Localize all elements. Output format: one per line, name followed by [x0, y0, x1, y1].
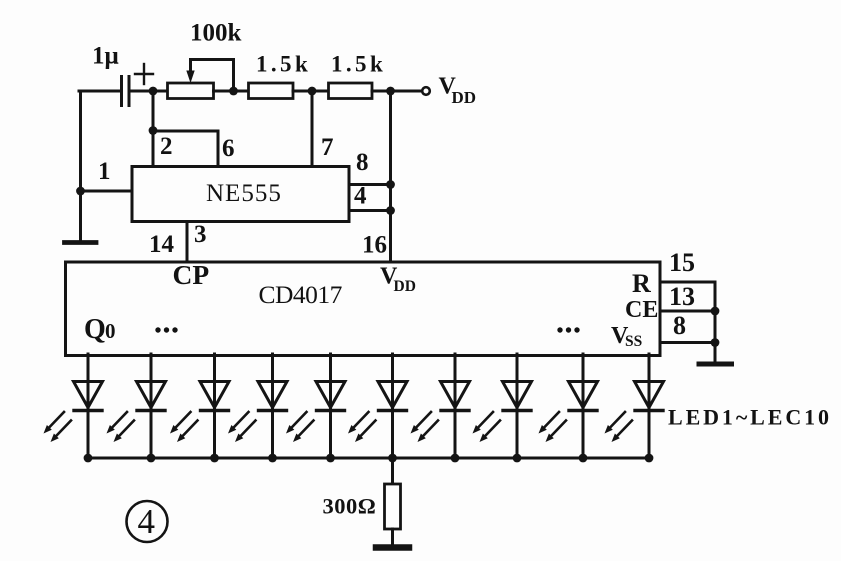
wire: R1 to R2: [293, 90, 329, 93]
LED9: [539, 354, 598, 462]
wire: NE555 pin 4 link: [349, 209, 391, 212]
wire: NE555 pin 3 to CD4017 CP: [186, 222, 189, 263]
wire: R3 to ground: [391, 529, 394, 545]
svg-text:13: 13: [669, 282, 695, 311]
wire: CE pin 13 link: [660, 310, 715, 313]
svg-text:8: 8: [356, 149, 369, 176]
label: VDD terminal: [439, 74, 477, 108]
LED5: [286, 354, 345, 462]
LED4: [228, 354, 287, 462]
figure number circle 4: [127, 501, 168, 542]
ground: left ground bar: [65, 240, 97, 245]
node: junction pin2/pin6: [149, 126, 158, 135]
svg-text:1.5k: 1.5k: [256, 52, 311, 77]
resistor R1 1.5k body: [249, 83, 294, 99]
ellipsis left: [155, 327, 177, 332]
terminal: VDD open circle: [422, 87, 430, 95]
wire: NE555 pin 6 link: [153, 131, 218, 166]
LED3: [170, 354, 229, 462]
svg-text:0: 0: [105, 319, 116, 343]
svg-text:4: 4: [354, 183, 367, 210]
svg-text:3: 3: [194, 221, 207, 248]
polarity plus mark: [135, 64, 153, 84]
wire: pot to R1: [214, 90, 250, 93]
label: VSS on chip: [611, 323, 642, 350]
svg-text:DD: DD: [394, 278, 416, 295]
ground: bottom ground bar: [376, 544, 409, 551]
node: junction pin 13: [711, 307, 720, 316]
ground: right ground bar: [699, 362, 732, 367]
svg-text:LED1~LEC10: LED1~LEC10: [668, 405, 832, 430]
LED array LED1-LED10: [44, 354, 664, 462]
resistor R3 300 ohm body: [385, 484, 401, 529]
wire: bus to R3: [391, 458, 394, 484]
svg-text:1μ: 1μ: [92, 43, 119, 70]
svg-text:1: 1: [98, 158, 111, 185]
wire: right vertical bus to ground: [714, 282, 717, 360]
wire: NE555 pin 7 drop: [311, 91, 314, 166]
svg-text:15: 15: [669, 248, 695, 277]
LED7: [411, 354, 470, 462]
LED1: [44, 354, 103, 462]
node: junction at pin 1: [76, 187, 85, 196]
potentiometer wiper arrow: [186, 60, 194, 84]
wire: top rail left segment: [79, 90, 121, 93]
svg-text:100k: 100k: [190, 20, 242, 47]
wire: left vertical drop to ground: [79, 91, 82, 239]
wire: VSS pin 8 link: [660, 341, 715, 344]
node: junction at VDD rail: [386, 87, 395, 96]
svg-text:2: 2: [160, 133, 173, 160]
wire: VDD rail down to CD4017 pin 16: [389, 91, 392, 262]
label: Q0 output: [84, 314, 116, 345]
svg-text:CE: CE: [625, 297, 658, 323]
label: VDD on chip: [380, 264, 416, 296]
counter U2 CD4017 box: [66, 262, 661, 356]
svg-text:4: 4: [138, 502, 156, 541]
svg-text:7: 7: [321, 134, 334, 161]
node: junction pot/wiper: [229, 87, 238, 96]
node: junction below capacitor: [149, 87, 158, 96]
LED2: [107, 354, 166, 462]
svg-text:14: 14: [149, 231, 175, 258]
LED8: [473, 354, 532, 462]
node: junction pin 8 vss: [711, 338, 720, 347]
svg-text:8: 8: [673, 311, 686, 340]
svg-text:1.5k: 1.5k: [331, 52, 386, 77]
LED10: [605, 354, 664, 462]
LED6: [348, 354, 407, 462]
op-amp U1 NE555 box: [132, 167, 349, 222]
wire: wiper loop to right terminal: [191, 60, 234, 92]
capacitor C1 1u plates: [122, 77, 130, 106]
svg-text:CP: CP: [173, 259, 210, 290]
node: junction pin 8: [386, 180, 395, 189]
svg-text:6: 6: [222, 135, 235, 162]
resistor R2 1.5k body: [329, 83, 373, 99]
svg-text:16: 16: [362, 232, 387, 259]
potentiometer RP1 100k body: [168, 83, 214, 99]
svg-text:R: R: [632, 269, 651, 298]
ellipsis right: [557, 327, 579, 332]
wire: R2 to VDD terminal: [372, 90, 422, 93]
svg-text:300Ω: 300Ω: [323, 494, 377, 519]
wire: R pin 15 link: [660, 281, 715, 284]
node: junction pin 4: [386, 206, 395, 215]
svg-text:NE555: NE555: [206, 180, 282, 207]
wire: NE555 pin 2 drop: [152, 91, 155, 166]
wire: cap to potentiometer: [129, 90, 168, 93]
svg-text:DD: DD: [452, 88, 477, 107]
wire: cathode bus: [87, 457, 651, 460]
node: junction at NE555 pin 7: [308, 87, 317, 96]
svg-text:SS: SS: [625, 333, 642, 350]
wire: NE555 pin 1 lead: [81, 190, 134, 193]
svg-text:CD4017: CD4017: [259, 280, 343, 309]
svg-text:Q: Q: [84, 314, 106, 345]
wire: NE555 pin 8 link: [349, 183, 391, 186]
